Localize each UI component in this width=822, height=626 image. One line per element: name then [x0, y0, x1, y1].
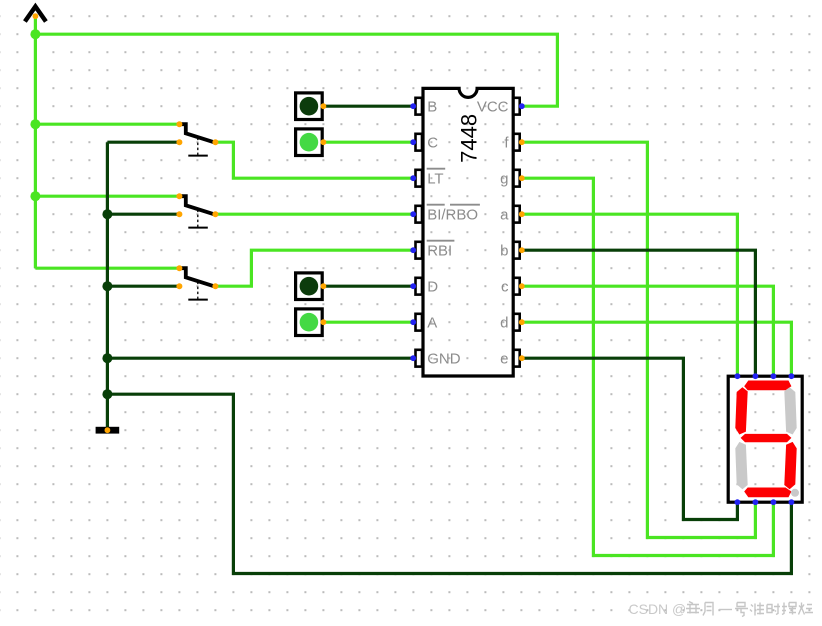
svg-text:GND: GND [427, 351, 461, 368]
svg-text:b: b [500, 243, 508, 260]
svg-text:A: A [427, 315, 437, 332]
svg-text:VCC: VCC [477, 99, 509, 116]
svg-text:B: B [427, 99, 437, 116]
svg-text:LT: LT [427, 171, 443, 188]
svg-text:RBI: RBI [427, 243, 452, 260]
svg-text:g: g [500, 171, 508, 188]
svg-text:7448: 7448 [457, 114, 482, 163]
svg-text:e: e [500, 351, 508, 368]
svg-text:a: a [500, 207, 509, 224]
svg-text:D: D [427, 279, 438, 296]
svg-text:BI/RBO: BI/RBO [427, 207, 478, 224]
svg-text:d: d [500, 315, 508, 332]
svg-text:C: C [427, 135, 438, 152]
svg-text:CSDN @: CSDN @ [629, 601, 687, 617]
svg-text:c: c [501, 279, 509, 296]
